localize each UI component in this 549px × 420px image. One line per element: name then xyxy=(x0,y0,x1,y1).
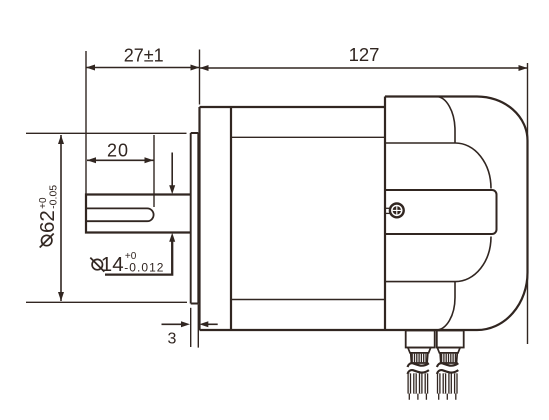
svg-text:20: 20 xyxy=(107,141,129,161)
svg-text:127: 127 xyxy=(349,44,380,65)
rear layer1 top arc xyxy=(436,97,455,144)
shaft flat (keyway) xyxy=(86,208,154,221)
screw tab xyxy=(385,208,390,213)
rear housing boundary xyxy=(384,97,386,331)
dim O62 vertical line xyxy=(60,135,62,301)
main body left edge xyxy=(230,107,232,330)
pilot plate (3mm flange) xyxy=(191,133,199,304)
stator inner line top xyxy=(231,136,385,138)
ext line mid xyxy=(199,50,201,105)
terminal box 1 xyxy=(406,331,435,348)
body bottom line xyxy=(200,329,386,331)
cable gland 1 xyxy=(408,348,431,400)
dim 27±1 line xyxy=(86,67,200,69)
O62 ext top xyxy=(26,132,187,134)
shaft xyxy=(86,195,191,233)
O62 ext bottom xyxy=(26,301,187,303)
ext line right xyxy=(527,63,529,344)
front housing left edge xyxy=(198,107,200,330)
ext line left (shaft) xyxy=(85,51,87,194)
svg-text:-0.05: -0.05 xyxy=(48,185,60,209)
text O14 xyxy=(90,251,164,276)
screw U xyxy=(390,204,404,218)
rear layer2 bottom xyxy=(385,237,491,282)
3 ext lines xyxy=(190,308,192,347)
20 ext right xyxy=(153,135,155,207)
svg-text:62: 62 xyxy=(36,210,59,233)
mid band xyxy=(385,190,497,234)
svg-text:27±1: 27±1 xyxy=(124,46,164,66)
dim O14 vertical bottom + leader xyxy=(105,241,172,275)
terminal box 2 xyxy=(437,331,464,348)
rear housing outer shell xyxy=(385,97,528,331)
rear layer1 bottom arc xyxy=(436,282,455,330)
svg-text:3: 3 xyxy=(168,331,177,348)
dim O14 vertical top xyxy=(171,153,173,187)
dim 127 line xyxy=(200,67,528,69)
cable gland 2 xyxy=(437,348,460,400)
body top line xyxy=(200,106,386,108)
text O62 rotated xyxy=(36,185,60,248)
svg-text:14: 14 xyxy=(101,253,124,276)
dim 3 arrows xyxy=(162,323,182,325)
stator inner line bottom xyxy=(231,299,385,301)
dim 20 line xyxy=(87,159,154,161)
rear layer2 top xyxy=(385,143,491,189)
svg-text:-0.012: -0.012 xyxy=(124,261,164,275)
